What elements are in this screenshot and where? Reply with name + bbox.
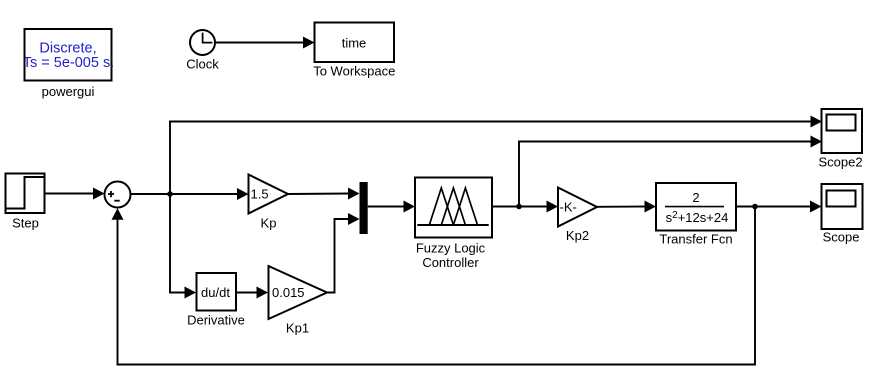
svg-text:Fuzzy Logic: Fuzzy Logic [416,241,486,256]
svg-text:2: 2 [692,190,699,205]
svg-text:1.5: 1.5 [251,187,269,202]
svg-text:powergui: powergui [42,84,95,99]
svg-text:0.015: 0.015 [272,285,305,300]
svg-text:Scope: Scope [823,230,860,245]
svg-text:Scope2: Scope2 [818,155,862,170]
wire branch down to Derivative [170,194,196,299]
wire Kp1 to Mux input 2 [327,213,360,293]
svg-text:Controller: Controller [422,255,479,270]
svg-text:du/dt: du/dt [201,285,230,300]
svg-text:Step: Step [12,216,39,231]
svg-text:Kp1: Kp1 [286,321,309,336]
wire feedback from Transfer Fcn output to Sum [112,207,756,365]
block Fuzzy Logic Controller [415,178,492,238]
gain Kp1 [269,266,328,319]
svg-text:Kp: Kp [261,215,277,230]
node junction B (FLC output branch) [516,204,522,210]
wire FLC to Kp2 [492,201,558,213]
wire branch up to Scope2 input 1 [170,116,822,195]
wire branch to Scope2 input 2 [519,136,822,207]
block Scope2 [822,109,863,153]
wire Kp2 to Transfer Fcn [597,201,656,213]
svg-text:time: time [342,36,367,51]
wire Kp to Mux input 1 [288,188,360,200]
block Transfer Fcn [656,183,736,231]
wire Mux to Fuzzy Logic Controller [368,201,415,213]
block Scope [822,184,863,229]
svg-text:Transfer Fcn: Transfer Fcn [659,232,732,247]
node junction A (sum output branch) [167,191,173,197]
mux Mux [360,182,368,234]
wire Sum to Kp [131,188,249,200]
sum junction Sum [105,182,131,208]
svg-text:Kp2: Kp2 [566,228,589,243]
gain Kp [249,175,289,214]
wire Transfer Fcn to Scope [736,201,822,213]
svg-text:Clock: Clock [186,57,219,72]
block Clock [190,30,215,55]
svg-text:Derivative: Derivative [187,313,245,328]
svg-text:-K-: -K- [560,200,577,215]
svg-text:Ts = 5e-005 s.: Ts = 5e-005 s. [23,55,114,71]
label Fuzzy Logic Controller [416,241,486,271]
block Derivative [197,273,237,311]
block To Workspace (time) [315,23,395,63]
wire Clock to To Workspace [215,37,315,49]
block powergui U_powergui [23,29,114,81]
svg-text:To Workspace: To Workspace [313,64,395,79]
block Step [6,174,45,214]
node junction C (Transfer Fcn output branch) [752,204,758,210]
gain Kp2 [558,188,597,227]
wire Step to Sum [45,188,105,200]
wire Derivative to Kp1 [236,287,268,299]
